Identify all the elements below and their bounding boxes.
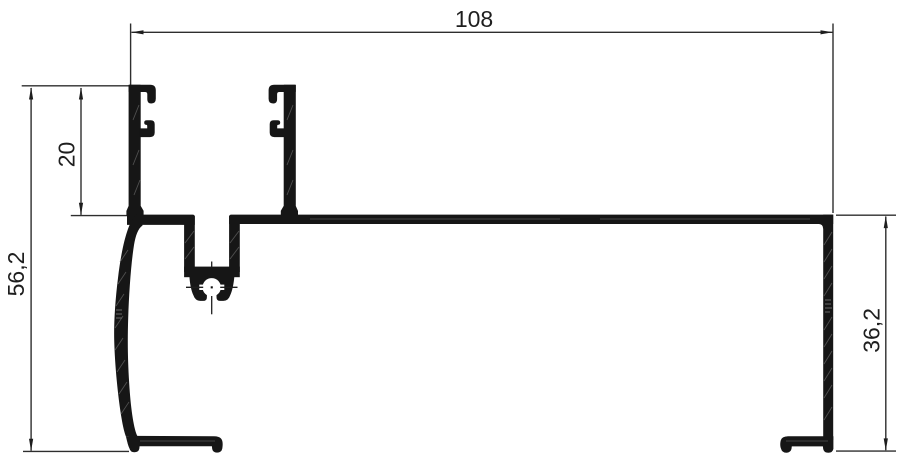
svg-text:108: 108 — [455, 6, 493, 32]
extension line 108 right vertical — [832, 24, 834, 214]
hatch right wall highlight — [825, 300, 832, 312]
hatch left wall highlight — [116, 310, 122, 318]
hatch U right wall — [230, 231, 239, 259]
arrowhead 20 bottom — [79, 203, 83, 215]
extension line 56,2 bottom — [23, 450, 129, 452]
fin 2 bottom hook — [270, 121, 284, 137]
extension line 36,2 top — [836, 214, 896, 216]
hatch fin 1 — [133, 105, 140, 195]
fin 2 wall (right snap fin, mirrored) — [281, 85, 297, 215]
extension line 36,2 bottom — [836, 450, 896, 452]
right foot — [780, 436, 833, 453]
boss crosshair vertical bottom — [211, 296, 213, 314]
boss crosshair horizontal right — [220, 286, 237, 288]
top member right segment — [229, 215, 833, 224]
arrowhead 56,2 bottom — [29, 439, 33, 451]
svg-text:36,2: 36,2 — [859, 308, 885, 353]
right foot highlight — [786, 440, 828, 442]
hatch texture strokes — [115, 105, 832, 441]
fin 1 wall (left snap fin) — [127, 85, 143, 215]
member highlight streak — [310, 218, 810, 220]
hatch right wall — [824, 232, 832, 420]
dimension line 108 — [132, 31, 833, 33]
fin 2 top hook — [269, 85, 295, 103]
boss center dot — [211, 286, 213, 288]
top member left segment — [127, 215, 195, 225]
screw port bore (white circle) — [203, 278, 221, 296]
screw port right wing — [219, 285, 224, 290]
screw port left wing — [199, 285, 204, 290]
screw channel right wall — [229, 216, 240, 272]
hatch left wall — [115, 250, 129, 414]
screw boss body — [189, 276, 234, 301]
arrowhead 108 right — [821, 30, 833, 34]
extension line 20 bottom — [71, 215, 128, 217]
left curved wall — [114, 215, 142, 437]
arrowhead 56,2 top — [29, 87, 33, 99]
right wall — [818, 215, 833, 440]
fin 1 top hook — [129, 85, 155, 103]
screw port bottom slot — [207, 293, 216, 302]
arrowhead 36,2 top — [884, 216, 888, 228]
arrowhead 36,2 bottom — [884, 438, 888, 450]
arrowhead 20 top — [79, 87, 83, 99]
dimension line 36,2 — [885, 217, 887, 451]
fin 1 bottom hook — [140, 121, 154, 137]
screw channel bottom bar — [184, 267, 240, 278]
left foot — [126, 436, 223, 453]
svg-text:56,2: 56,2 — [3, 252, 29, 297]
hatch U left wall — [185, 231, 194, 259]
arrowhead 108 left — [131, 30, 143, 34]
left foot highlight — [140, 440, 215, 442]
screw channel left wall — [181, 216, 195, 272]
dimension line 56,2 — [30, 88, 32, 451]
extension line top-left horizontal — [22, 85, 131, 87]
boss crosshair vertical top — [211, 262, 213, 268]
hatch fin 2 — [287, 105, 293, 195]
extension line 108 left vertical — [130, 24, 132, 88]
dimension line 20 — [80, 88, 82, 215]
boss crosshair horizontal left — [186, 286, 203, 288]
svg-text:20: 20 — [54, 142, 80, 168]
